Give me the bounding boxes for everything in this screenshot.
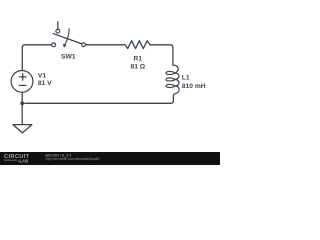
svg-text:81 Ω: 81 Ω xyxy=(131,64,146,71)
switch top stub xyxy=(57,22,59,30)
switch actuator arrow xyxy=(65,29,69,44)
svg-text:V1: V1 xyxy=(38,72,46,79)
CircuitLab logo xyxy=(4,154,30,163)
junction dot xyxy=(20,101,24,105)
bottom watermark bar xyxy=(0,152,220,165)
switch right terminal xyxy=(82,43,86,47)
labels xyxy=(38,53,206,90)
wire top-left: V1 top to switch left terminal xyxy=(22,45,51,71)
inductor L1 coil xyxy=(166,65,179,96)
wire resistor to top-right corner down to inductor xyxy=(150,45,173,65)
switch arrowhead xyxy=(63,44,67,48)
wire switch right terminal to resistor xyxy=(86,44,125,46)
wire junction to ground xyxy=(21,103,23,124)
svg-text:▪LAB: ▪LAB xyxy=(18,158,28,163)
switch blade SW1 xyxy=(53,34,82,44)
ground symbol xyxy=(13,125,32,133)
switch top terminal xyxy=(56,29,60,33)
wire inductor bottom to corner xyxy=(25,96,174,104)
wire bottom-left: junction to V1 bottom xyxy=(21,92,23,103)
V1 minus sign xyxy=(19,84,26,86)
svg-text:81 V: 81 V xyxy=(38,80,52,87)
svg-text:SW1: SW1 xyxy=(61,53,76,60)
switch left terminal xyxy=(52,43,56,47)
svg-text:R1: R1 xyxy=(134,55,143,62)
voltage source V1 circle xyxy=(11,71,33,93)
svg-text:L1: L1 xyxy=(182,75,190,82)
V1 plus sign xyxy=(19,74,26,86)
svg-text:http://circuitlab.com/c6maab63: http://circuitlab.com/c6maab635qc85 xyxy=(46,157,100,161)
resistor R1 xyxy=(125,41,150,49)
svg-text:810 mH: 810 mH xyxy=(182,83,206,90)
